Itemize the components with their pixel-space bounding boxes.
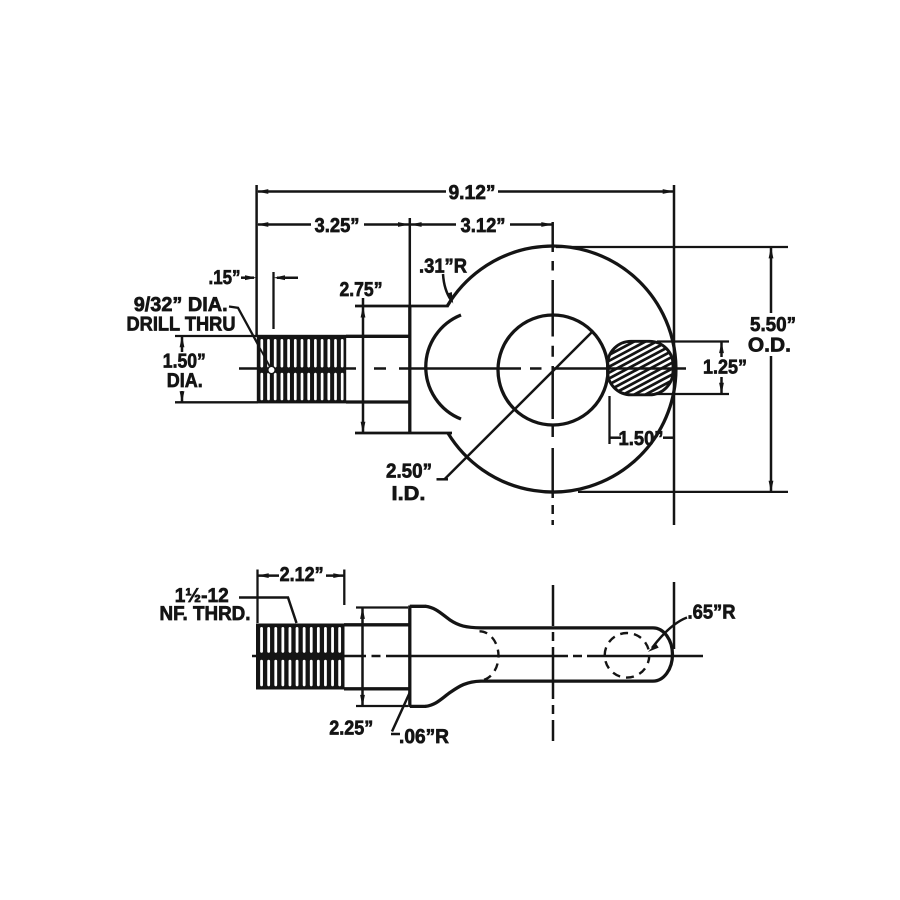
2.25 dim extension lines xyxy=(356,606,408,608)
svg-text:1.50”: 1.50” xyxy=(619,428,664,450)
svg-text:3.25”: 3.25” xyxy=(315,215,360,237)
dimension 2.75 vertical line xyxy=(362,298,365,433)
vertical centerline (side view) xyxy=(552,585,555,741)
dimension 1.50 DIA vertical line xyxy=(181,337,184,353)
.65R leader xyxy=(652,618,687,649)
svg-text:2.12”: 2.12” xyxy=(280,564,324,586)
dimension .15 arrows xyxy=(241,276,254,279)
hatched section oval xyxy=(600,299,682,437)
svg-text:DRILL THRU: DRILL THRU xyxy=(127,314,236,336)
leader 9/32 drill xyxy=(229,307,270,367)
dimension 1.50 DIA extension lines xyxy=(175,335,258,337)
extension line mid (flange) xyxy=(409,218,412,307)
svg-text:.15”: .15” xyxy=(209,267,241,289)
svg-text:9.12”: 9.12” xyxy=(449,182,496,204)
svg-text:1.25”: 1.25” xyxy=(703,357,747,379)
concave neck arc xyxy=(426,315,461,419)
2.12 dim line xyxy=(258,574,279,577)
svg-text:DIA.: DIA. xyxy=(167,370,203,392)
svg-text:2.50”: 2.50” xyxy=(386,461,432,483)
eye inner circle (2.50 I.D.) xyxy=(498,315,608,425)
dashed circle at eye end xyxy=(605,633,650,678)
taper S-curve bottom xyxy=(426,681,654,706)
dimension 3.12 line xyxy=(510,223,552,226)
2.12 dim extension lines xyxy=(256,570,258,624)
shank outline bottom xyxy=(346,400,411,403)
flange side view xyxy=(408,606,411,708)
shank outline top xyxy=(346,335,411,338)
leader 2.50 I.D. diagonal xyxy=(437,478,449,481)
thread block (front view) xyxy=(257,335,346,404)
svg-text:3.12”: 3.12” xyxy=(461,215,506,237)
horizontal centerline (front view) xyxy=(239,367,686,370)
extension line left face xyxy=(255,185,258,337)
taper S-curve top xyxy=(426,606,654,628)
.06R leader xyxy=(391,693,410,735)
svg-text:5.50”: 5.50” xyxy=(750,314,796,336)
dimension 3.25 line xyxy=(258,223,311,226)
NF THRD leader xyxy=(239,598,297,624)
dimension 9.12 line xyxy=(258,190,446,193)
flange face (front view) xyxy=(408,305,411,434)
eye outer circle arc xyxy=(447,246,676,492)
svg-text:.65”R: .65”R xyxy=(688,602,737,624)
shank lines side view xyxy=(344,623,411,626)
thread slots (front view) xyxy=(260,339,343,400)
svg-text:NF. THRD.: NF. THRD. xyxy=(160,603,251,625)
thread block (side view) xyxy=(256,624,345,690)
rounded end cap .65R xyxy=(653,628,672,681)
vertical centerline (front view) xyxy=(551,222,554,525)
svg-text:I.D.: I.D. xyxy=(392,483,426,505)
svg-text:2.75”: 2.75” xyxy=(340,279,383,301)
dashed blend arc xyxy=(480,631,499,680)
extension line right O.D. upper xyxy=(673,185,676,525)
boss bottom line + extension xyxy=(355,432,452,435)
5.50 O.D. extension lines xyxy=(556,246,788,248)
.31R leader xyxy=(443,274,451,300)
boss top line + 2.75 extension xyxy=(355,305,449,308)
svg-text:.06”R: .06”R xyxy=(399,726,450,748)
1.50 section width dim xyxy=(608,396,610,444)
extension line right O.D. lower (bottom view) xyxy=(673,582,676,649)
svg-text:O.D.: O.D. xyxy=(748,335,791,357)
5.50 O.D. dim line xyxy=(770,247,773,313)
svg-text:2.25”: 2.25” xyxy=(329,718,373,740)
drill hole over thread xyxy=(253,336,270,367)
svg-text:.31”R: .31”R xyxy=(419,256,468,278)
thread slots (side view) xyxy=(260,627,341,686)
tick line for .15 xyxy=(272,272,274,329)
horizontal centerline (side view) xyxy=(252,655,703,658)
1.25 dim line xyxy=(720,342,723,357)
2.25 dim line xyxy=(361,608,364,706)
1.25 dim extension lines xyxy=(657,340,729,342)
